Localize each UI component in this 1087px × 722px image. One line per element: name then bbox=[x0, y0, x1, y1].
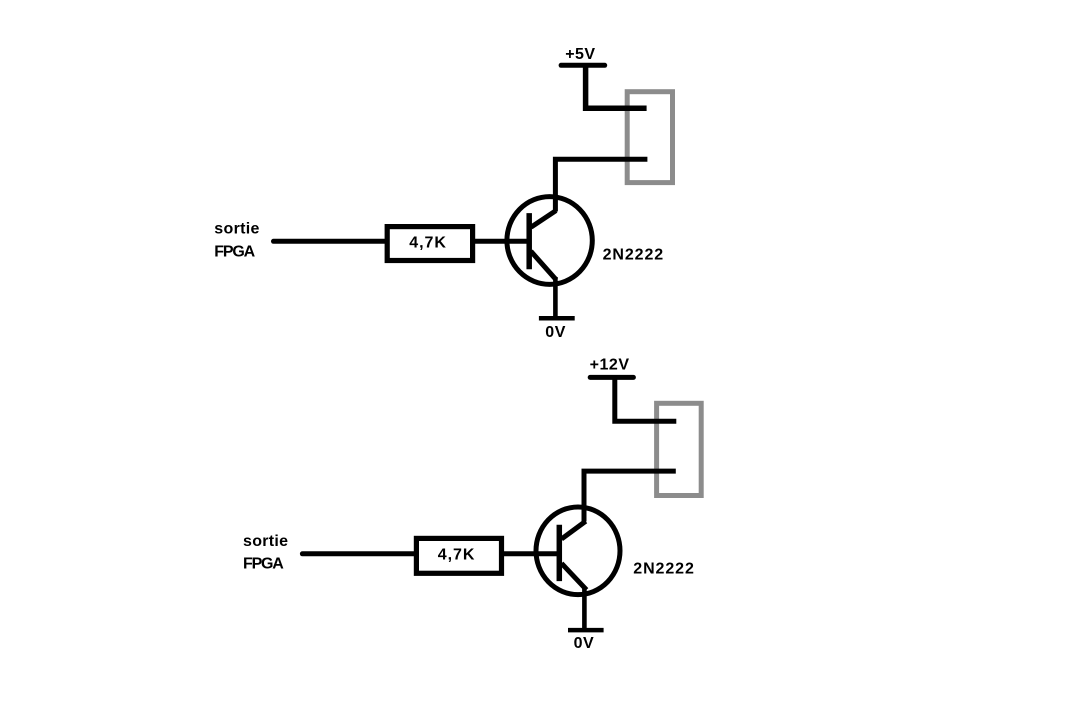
svg-text:4,7K: 4,7K bbox=[409, 234, 447, 251]
load LOAD2 (gray outline box, bottom circuit) bbox=[657, 403, 702, 495]
svg-text:+5V: +5V bbox=[565, 46, 595, 63]
svg-text:+12V: +12V bbox=[590, 356, 630, 373]
transistor Q2 body circle bbox=[536, 507, 620, 595]
svg-text:FPGA: FPGA bbox=[243, 556, 284, 573]
wire Q2 emitter to ground bbox=[582, 588, 587, 630]
svg-text:0V: 0V bbox=[574, 635, 595, 652]
power rail bar +5V bbox=[561, 63, 605, 68]
resistor R1 box bbox=[387, 227, 472, 261]
svg-text:sortie: sortie bbox=[243, 533, 288, 550]
resistor R2 box bbox=[416, 538, 501, 573]
wire +12V rail to load LOAD2 bbox=[615, 375, 677, 421]
wire Q1 collector to load LOAD1 bbox=[555, 159, 647, 211]
transistor Q2 base bar bbox=[557, 525, 563, 581]
wire +5V rail to load LOAD1 bbox=[586, 63, 647, 108]
ground bar 0V (top circuit) bbox=[539, 316, 575, 321]
wire sortie FPGA to R1 to Q1 base bbox=[274, 239, 530, 244]
svg-text:sortie: sortie bbox=[214, 221, 259, 238]
svg-text:4,7K: 4,7K bbox=[438, 547, 476, 564]
power rail bar +12V bbox=[590, 375, 633, 380]
transistor Q2 emitter diagonal bbox=[562, 563, 587, 590]
svg-text:2N2222: 2N2222 bbox=[603, 247, 664, 264]
svg-text:0V: 0V bbox=[545, 324, 566, 341]
transistor Q1 collector diagonal bbox=[531, 211, 556, 228]
transistor Q1 body circle bbox=[507, 197, 592, 285]
svg-text:2N2222: 2N2222 bbox=[633, 560, 694, 577]
wire Q1 emitter to ground bbox=[553, 277, 558, 318]
wire Q2 collector to load LOAD2 bbox=[584, 471, 676, 521]
transistor Q2 collector diagonal bbox=[562, 521, 586, 539]
load LOAD1 (gray outline box, top circuit) bbox=[627, 92, 672, 183]
transistor Q1 emitter diagonal bbox=[531, 251, 556, 280]
wire sortie FPGA to R2 to Q2 base bbox=[302, 551, 559, 556]
transistor Q1 base bar bbox=[526, 213, 532, 269]
ground bar 0V (bottom circuit) bbox=[568, 628, 604, 633]
svg-text:FPGA: FPGA bbox=[214, 244, 255, 261]
